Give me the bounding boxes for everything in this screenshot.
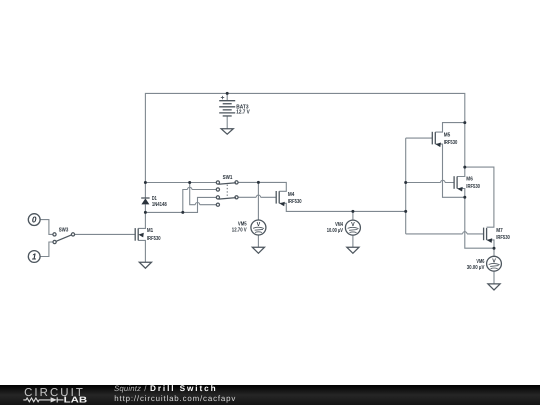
wire top rail — [145, 93, 464, 182]
svg-text:http://circuitlab.com/cacfapv: http://circuitlab.com/cacfapv — [114, 394, 235, 403]
transistor M7 — [484, 228, 493, 243]
wire hop of pole2-bottom wire over vertical — [195, 203, 199, 205]
ground (M1 source) — [139, 262, 151, 268]
wire hop of M7 gate over source vertical — [463, 232, 467, 234]
label VM5 — [232, 222, 247, 234]
label M7 — [496, 228, 510, 241]
label SW3 — [59, 228, 69, 234]
wire M6 gate (with hop) — [406, 182, 454, 184]
wire rail branch to pole2 bottom — [190, 183, 217, 205]
wire M7 source — [487, 240, 494, 248]
label M6 — [466, 177, 480, 190]
wire SW3 common to M1 gate — [75, 233, 136, 235]
label V of VM4 — [351, 222, 355, 228]
battery BAT3 — [219, 96, 235, 116]
svg-text:V: V — [492, 259, 496, 265]
wire M1 drain — [138, 212, 145, 228]
svg-text:IRF530: IRF530 — [496, 235, 510, 241]
svg-text:V: V — [257, 222, 261, 228]
transistor M6 — [454, 176, 463, 191]
svg-text:Drill Switch: Drill Switch — [150, 385, 216, 393]
label M4 — [288, 192, 302, 205]
node M5/M6 source — [463, 196, 466, 199]
transistor M5 — [432, 132, 441, 147]
node M6 drain — [463, 166, 466, 169]
svg-text:IRF530: IRF530 — [288, 199, 302, 205]
label SW1 — [223, 175, 233, 181]
svg-text:M6: M6 — [466, 177, 473, 183]
svg-text:SW3: SW3 — [59, 228, 69, 234]
node battery-rail — [226, 92, 229, 95]
svg-text:M5: M5 — [444, 132, 451, 138]
wire SW1 pole2 common to M4 gate (with hop) — [238, 196, 276, 198]
wire VM6 bottom — [493, 271, 495, 284]
transistor M1 — [135, 228, 144, 241]
wire right rail — [464, 123, 466, 168]
wire M6 drain — [457, 167, 465, 176]
wire VM4 bottom — [352, 235, 354, 247]
label D1 — [152, 196, 167, 208]
wire VM4 top — [352, 211, 354, 220]
svg-text:IRF530: IRF530 — [444, 140, 458, 146]
wire hop of M6 gate over M5 source vertical — [441, 180, 445, 182]
svg-text:30.00 µV: 30.00 µV — [467, 265, 485, 271]
node rail-D1 — [144, 181, 147, 184]
wire M1 source to ground — [138, 240, 145, 262]
logo CIRCUIT text — [24, 387, 83, 399]
wire gate bus vertical — [405, 138, 407, 234]
node rail-SW1 branch — [188, 181, 191, 184]
label M1 — [147, 228, 161, 242]
label V of VM6 — [492, 259, 496, 265]
wire M5 drain — [435, 123, 465, 133]
label BAT3 value — [236, 104, 250, 115]
svg-text:M4: M4 — [288, 192, 295, 198]
ground (VM6) — [488, 284, 500, 290]
node D1-M1 junction — [144, 211, 147, 214]
label V of VM5 — [257, 222, 261, 228]
node VM4 tap — [351, 210, 354, 213]
ground (VM4) — [347, 247, 359, 253]
svg-text:1: 1 — [32, 253, 37, 262]
transistor M4 — [276, 191, 285, 206]
wire VM5 top — [257, 182, 259, 220]
svg-text:1N4148: 1N4148 — [152, 202, 167, 208]
footer bar — [0, 385, 540, 405]
svg-text:IRF530: IRF530 — [466, 184, 480, 190]
logo LAB text — [64, 394, 88, 404]
ground (battery) — [221, 129, 233, 135]
node M7 source — [493, 247, 496, 250]
wire M6 drain to M7 drain — [465, 167, 494, 227]
svg-text:V: V — [351, 222, 355, 228]
svg-text:10.00 µV: 10.00 µV — [327, 228, 344, 234]
svg-text:/: / — [144, 385, 147, 393]
svg-text:SW1: SW1 — [223, 175, 233, 181]
svg-text:M7: M7 — [496, 228, 503, 234]
svg-text:12.70 V: 12.70 V — [232, 228, 247, 234]
url line — [114, 394, 235, 403]
svg-text:Squintz: Squintz — [114, 385, 141, 393]
svg-text:LAB: LAB — [64, 394, 88, 404]
logo resistor squiggle and diode — [23, 397, 63, 402]
wire sources to VM6 node — [465, 197, 494, 248]
ground (VM5) — [252, 247, 264, 253]
node VM5 tap — [257, 181, 260, 184]
wire M4 source run — [279, 203, 406, 211]
switch SW1 — [216, 181, 238, 207]
svg-text:M1: M1 — [147, 228, 153, 234]
wire rail to SW1 pole1 top — [145, 182, 216, 184]
svg-text:12.7 V: 12.7 V — [236, 110, 250, 116]
wire node 0 to SW3 — [40, 220, 53, 235]
svg-text:0: 0 — [32, 216, 37, 225]
svg-text:IRF530: IRF530 — [147, 236, 161, 242]
node M5 drain — [463, 121, 466, 124]
wire M5 source down — [435, 144, 465, 197]
node 1 — [28, 251, 40, 263]
wire VM6 top — [493, 248, 495, 256]
node M6 gate tap — [404, 181, 407, 184]
wire M6 source — [457, 189, 465, 198]
wire D1 anode to node — [144, 204, 146, 212]
title line — [114, 384, 216, 393]
wire hop of pole1-bottom wire over vertical — [188, 187, 192, 189]
node 0 — [28, 214, 40, 226]
label M5 — [444, 132, 458, 146]
voltmeter VM5 — [251, 220, 266, 235]
node bottom branch — [181, 211, 184, 214]
label VM4 — [327, 222, 344, 234]
wire node B bottom run — [145, 197, 216, 212]
wire node B branch to pole1 bottom (with hop) — [183, 190, 217, 213]
node gate bus tap — [404, 210, 407, 213]
voltmeter VM6 — [487, 256, 502, 271]
wire battery top pin — [226, 93, 228, 100]
wire SW1 pole1 common to M4 drain — [238, 182, 286, 191]
voltmeter VM4 — [345, 220, 360, 235]
wire M7 gate (with hop) — [406, 233, 484, 235]
label VM6 — [467, 259, 485, 271]
wire VM5 bottom — [257, 235, 259, 247]
switch SW3 — [53, 233, 75, 244]
wire hop of M4 gate wire over VM5 vertical — [256, 195, 260, 197]
wire M5 gate — [406, 137, 433, 139]
wire node 1 to SW3 — [40, 242, 53, 257]
wire D1 cathode to rail tee — [144, 183, 146, 199]
diode D1 — [141, 198, 149, 204]
wire battery bottom pin — [226, 116, 228, 129]
